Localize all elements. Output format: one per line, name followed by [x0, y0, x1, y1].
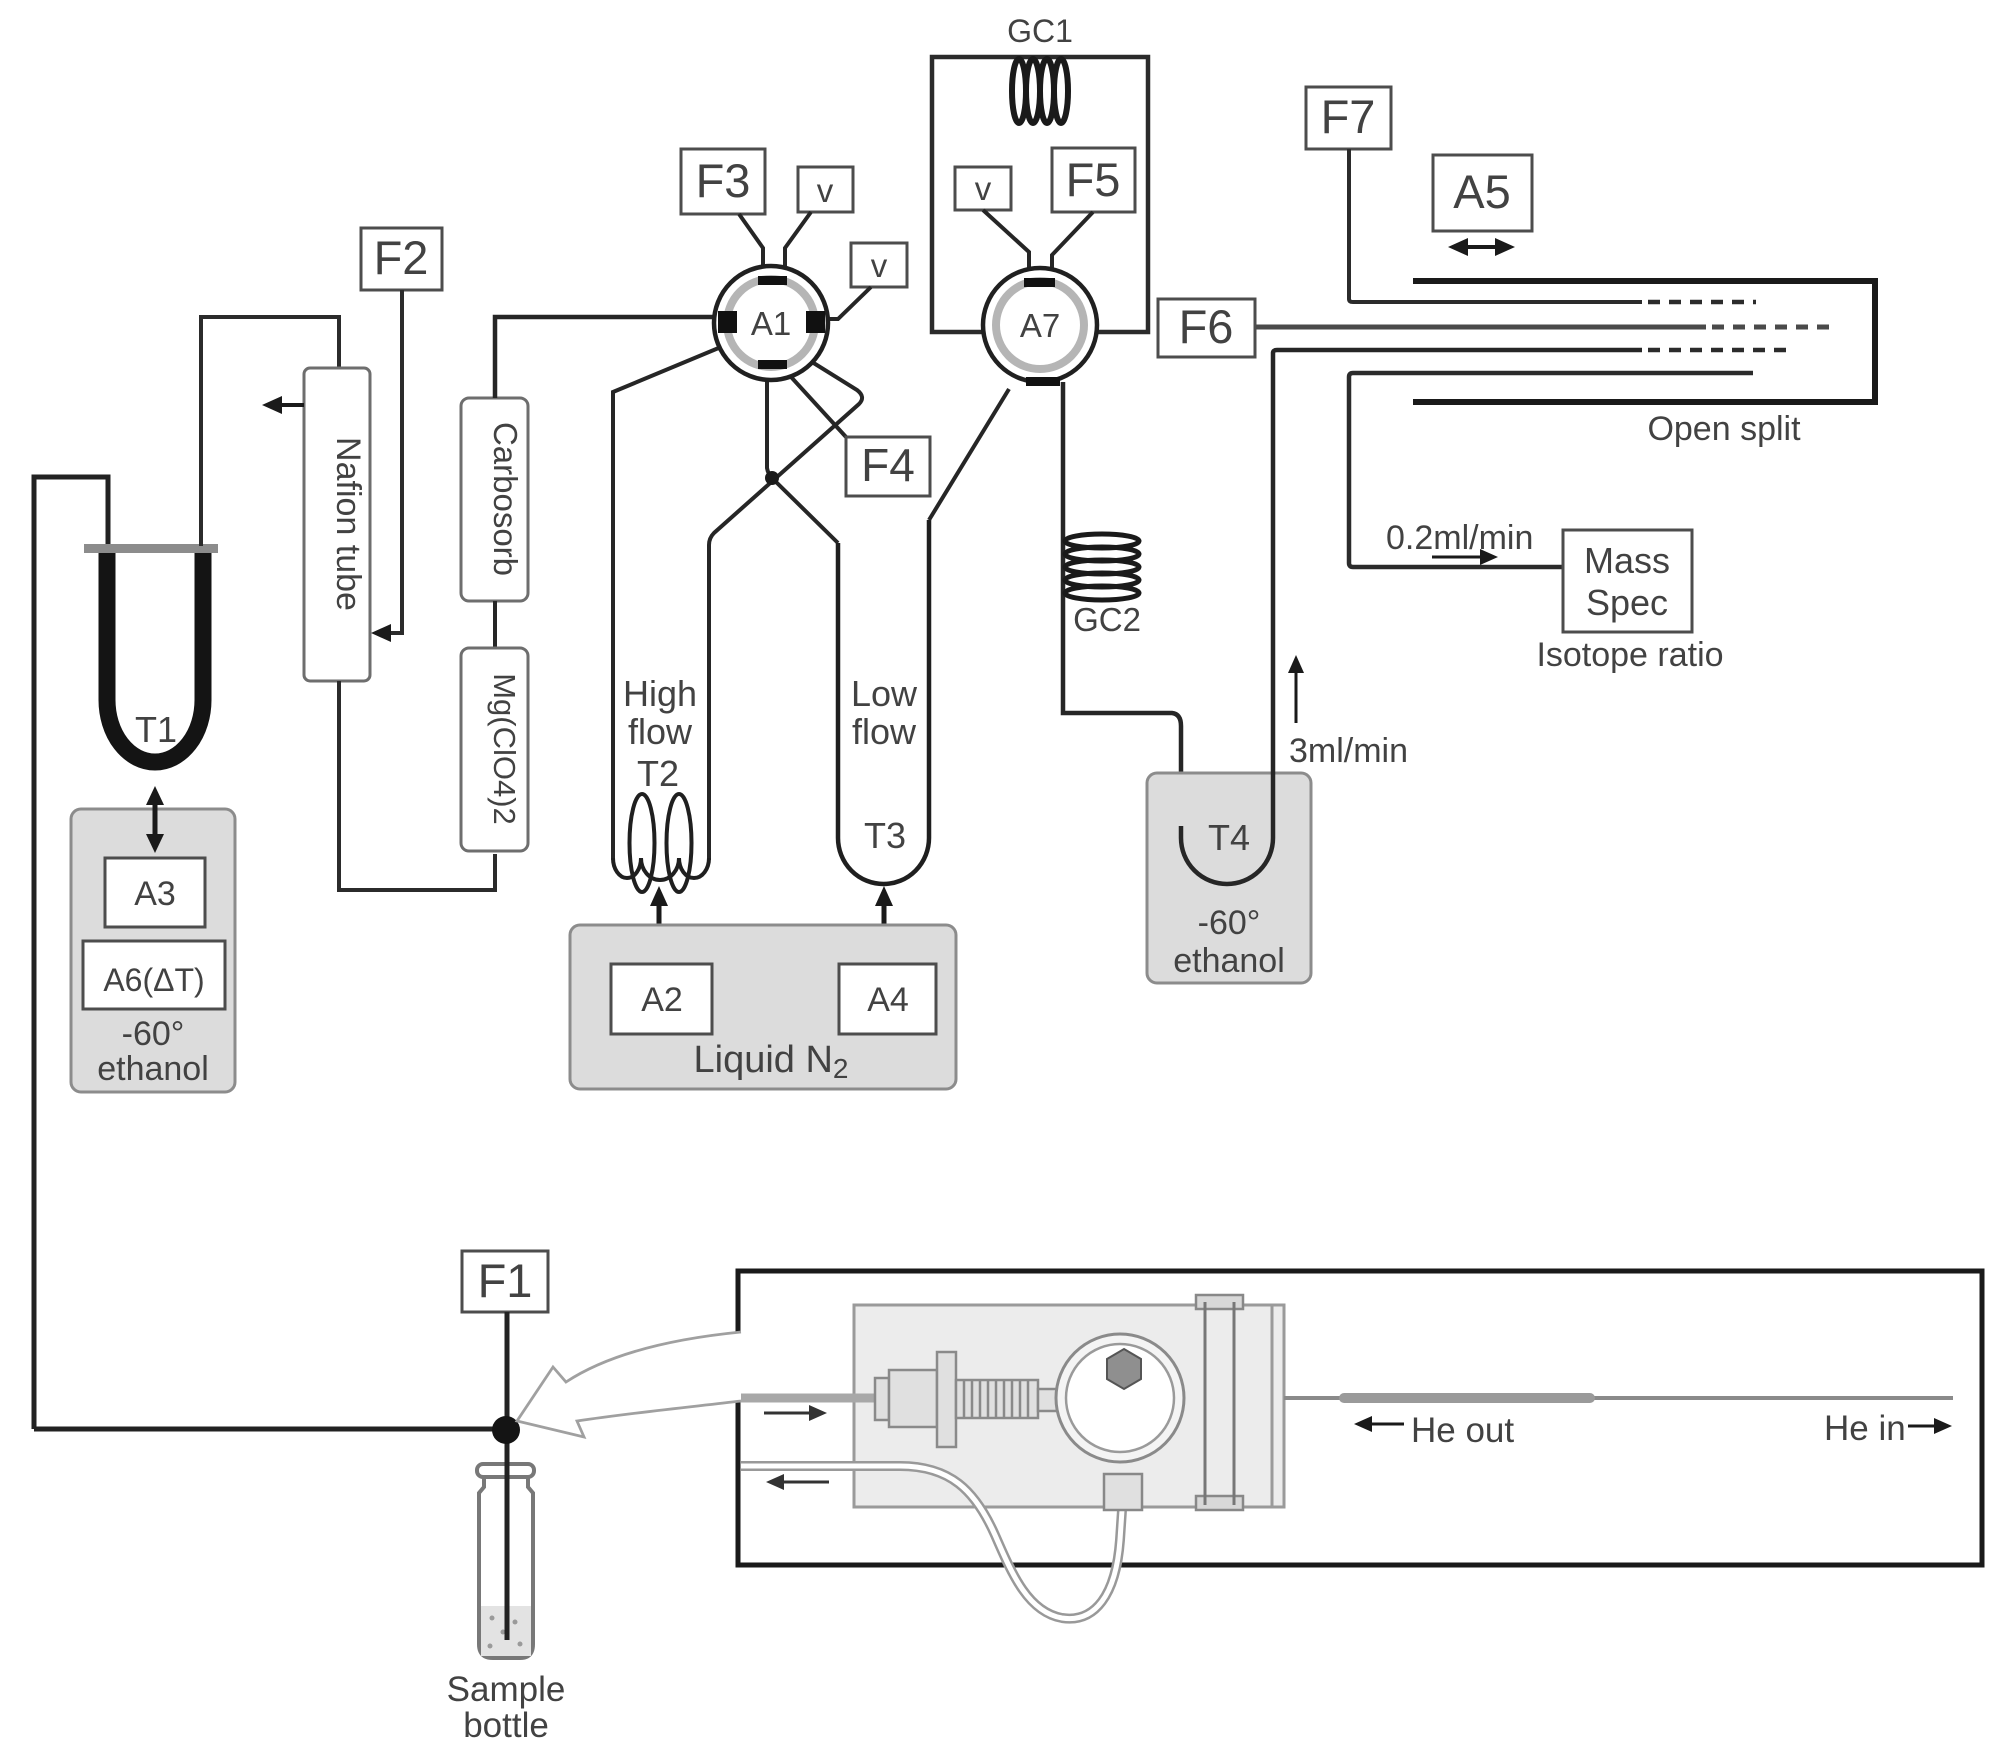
- open split housing: [1413, 281, 1875, 402]
- svg-text:0.2ml/min: 0.2ml/min: [1386, 519, 1533, 557]
- open split capillary F7 dashes: [1648, 300, 1756, 305]
- sample bottle: [477, 1312, 534, 1658]
- valve A1: [714, 266, 828, 380]
- svg-text:Mass: Mass: [1584, 540, 1670, 581]
- sensor A6 box: [83, 941, 225, 1009]
- hollow curved arrow to junction: [517, 1332, 741, 1437]
- svg-text:F4: F4: [861, 439, 915, 491]
- svg-text:A5: A5: [1453, 165, 1511, 218]
- wire v to A7: [983, 210, 1029, 281]
- svg-text:F6: F6: [1179, 300, 1234, 353]
- svg-text:A4: A4: [867, 981, 909, 1019]
- flow box F1: [462, 1251, 548, 1312]
- sensor A3 box: [105, 858, 205, 927]
- pump inlet fittings: [875, 1352, 1094, 1447]
- junction dot at crossing: [765, 471, 779, 485]
- svg-text:T1: T1: [135, 709, 177, 750]
- pump return tube (curved): [741, 1466, 1122, 1619]
- wire carbosorb to A1: [495, 317, 717, 398]
- GC2 coil: [1065, 534, 1139, 600]
- mass spec box: [1563, 530, 1692, 632]
- flow box F4: [846, 437, 930, 496]
- A5 double arrow: [1462, 245, 1501, 249]
- trap T3 U-tube (low flow): [838, 520, 929, 884]
- flow box F5: [1052, 148, 1135, 212]
- svg-text:ethanol: ethanol: [97, 1050, 209, 1088]
- He needle line: [1284, 1396, 1953, 1400]
- sensor A4 box: [839, 964, 936, 1034]
- svg-text:A7: A7: [1020, 307, 1060, 344]
- svg-text:Sample: Sample: [447, 1670, 566, 1709]
- svg-text:Mg(ClO4)2: Mg(ClO4)2: [487, 673, 522, 825]
- wire A7 to GC2 and T4 left leg: [1063, 382, 1181, 838]
- wire nafion bottom loop to Mg trap: [339, 681, 495, 890]
- sensor A2 box: [611, 964, 712, 1034]
- wire F1 to sample bottle: [505, 1312, 510, 1640]
- GC1 column coil: [1012, 59, 1068, 123]
- svg-text:A3: A3: [134, 875, 176, 913]
- svg-text:F5: F5: [1066, 153, 1121, 206]
- double arrow T2 to A2: [657, 901, 662, 944]
- double arrow T1 to A3 bath: [153, 800, 158, 838]
- wire F2 to nafion with arrow: [385, 290, 402, 633]
- wire v1 to A1: [785, 212, 811, 280]
- cold bath box (-60 ethanol, A3/A6): [71, 809, 235, 1092]
- svg-text:Nafion tube: Nafion tube: [329, 437, 367, 611]
- wire A1 to F4: [781, 366, 846, 437]
- trap T2 coil (high flow): [613, 794, 709, 892]
- double arrow T3 to A4: [882, 901, 887, 944]
- pump inlet tube: [741, 1394, 880, 1403]
- pump thread hatch: [964, 1380, 1028, 1418]
- wire far-left loop (sample line to T1): [34, 477, 108, 1429]
- svg-text:ethanol: ethanol: [1173, 942, 1285, 980]
- valve vent box v (A7): [955, 167, 1011, 210]
- svg-text:High: High: [623, 673, 697, 714]
- wire v2 to A1: [824, 287, 871, 319]
- svg-text:T3: T3: [864, 815, 906, 856]
- T1 top cap: [84, 544, 218, 553]
- svg-text:flow: flow: [628, 711, 693, 752]
- svg-text:Liquid N2: Liquid N2: [694, 1039, 849, 1084]
- svg-text:T4: T4: [1208, 817, 1250, 858]
- sensor A5 box: [1433, 155, 1532, 231]
- svg-text:bottle: bottle: [463, 1706, 549, 1745]
- svg-text:Open split: Open split: [1647, 410, 1801, 448]
- svg-text:flow: flow: [852, 711, 917, 752]
- trap T4 U-tube and riser to open split: [1181, 350, 1642, 884]
- flow box F6: [1158, 299, 1255, 357]
- liquid N2 bath box: [570, 925, 956, 1089]
- GC1 oven box: [932, 57, 1148, 332]
- wire F3 to A1: [739, 214, 763, 280]
- F6 capillary: [1256, 325, 1706, 330]
- svg-text:Spec: Spec: [1586, 582, 1668, 623]
- wire A1 to T2 left leg (high flow): [613, 347, 721, 860]
- arrow out of nafion (left): [276, 403, 304, 407]
- wire bottom horizontal to junction: [34, 1427, 494, 1432]
- pump outlet fitting: [1104, 1474, 1142, 1510]
- junction dot: [492, 1416, 520, 1444]
- wire F7 to open split: [1349, 149, 1642, 302]
- svg-text:He in: He in: [1824, 1409, 1906, 1448]
- wire carbosorb to Mg trap: [493, 601, 497, 648]
- svg-text:GC2: GC2: [1073, 601, 1141, 638]
- He purge unit box: [738, 1271, 1982, 1565]
- svg-text:-60°: -60°: [1198, 904, 1261, 942]
- wire A1 bottom to T3 left leg: [767, 366, 838, 543]
- svg-text:3ml/min: 3ml/min: [1289, 732, 1408, 770]
- svg-text:Isotope ratio: Isotope ratio: [1536, 636, 1723, 674]
- wire A1 to T2 right leg (crossing): [709, 362, 862, 860]
- T4 riser capillary dashes: [1648, 348, 1790, 353]
- open split return tube to mass spec: [1349, 373, 1753, 567]
- gauge nut: [1107, 1349, 1141, 1389]
- He needle sheath: [1344, 1393, 1590, 1403]
- svg-text:F1: F1: [478, 1254, 533, 1307]
- svg-text:F7: F7: [1321, 90, 1376, 143]
- wire F5 to A7: [1052, 212, 1093, 281]
- wire T1 right arm to Nafion tube: [201, 317, 339, 546]
- svg-text:GC1: GC1: [1007, 13, 1073, 49]
- arrow 3ml/min: [1295, 667, 1298, 723]
- svg-text:F3: F3: [696, 154, 751, 207]
- pump gauge: [1056, 1334, 1184, 1462]
- flow box F3: [681, 149, 765, 214]
- cold bath T4 box: [1147, 773, 1311, 983]
- flow box F7: [1306, 87, 1391, 149]
- trap T1 U-tube: [107, 552, 203, 762]
- valve A7: [983, 268, 1097, 386]
- pump flow arrow left: [779, 1481, 829, 1484]
- svg-text:Low: Low: [851, 673, 918, 714]
- valve vent box v2: [851, 243, 907, 287]
- pump mounting plate: [854, 1305, 1284, 1507]
- F6 capillary dashes: [1712, 325, 1838, 330]
- svg-text:-60°: -60°: [122, 1015, 185, 1053]
- svg-text:v: v: [817, 172, 834, 209]
- carbosorb trap: [461, 398, 528, 601]
- valve vent box v1: [798, 167, 853, 212]
- svg-text:A6(ΔT): A6(ΔT): [103, 962, 204, 998]
- pump bracket: [1196, 1295, 1243, 1309]
- flow box F2: [361, 228, 442, 290]
- svg-text:F2: F2: [374, 231, 429, 284]
- svg-text:v: v: [975, 170, 992, 207]
- svg-text:T2: T2: [637, 753, 679, 794]
- svg-text:A1: A1: [751, 305, 791, 342]
- wire T3 to A7: [929, 389, 1009, 520]
- Mg(ClO4)2 trap: [461, 648, 528, 851]
- pump flow arrow right: [764, 1412, 814, 1415]
- svg-text:A2: A2: [641, 981, 683, 1019]
- svg-text:He out: He out: [1411, 1411, 1514, 1450]
- nafion tube: [304, 368, 370, 681]
- arrow 0.2ml/min: [1432, 556, 1486, 559]
- svg-text:Carbosorb: Carbosorb: [487, 422, 524, 576]
- svg-text:v: v: [871, 247, 888, 284]
